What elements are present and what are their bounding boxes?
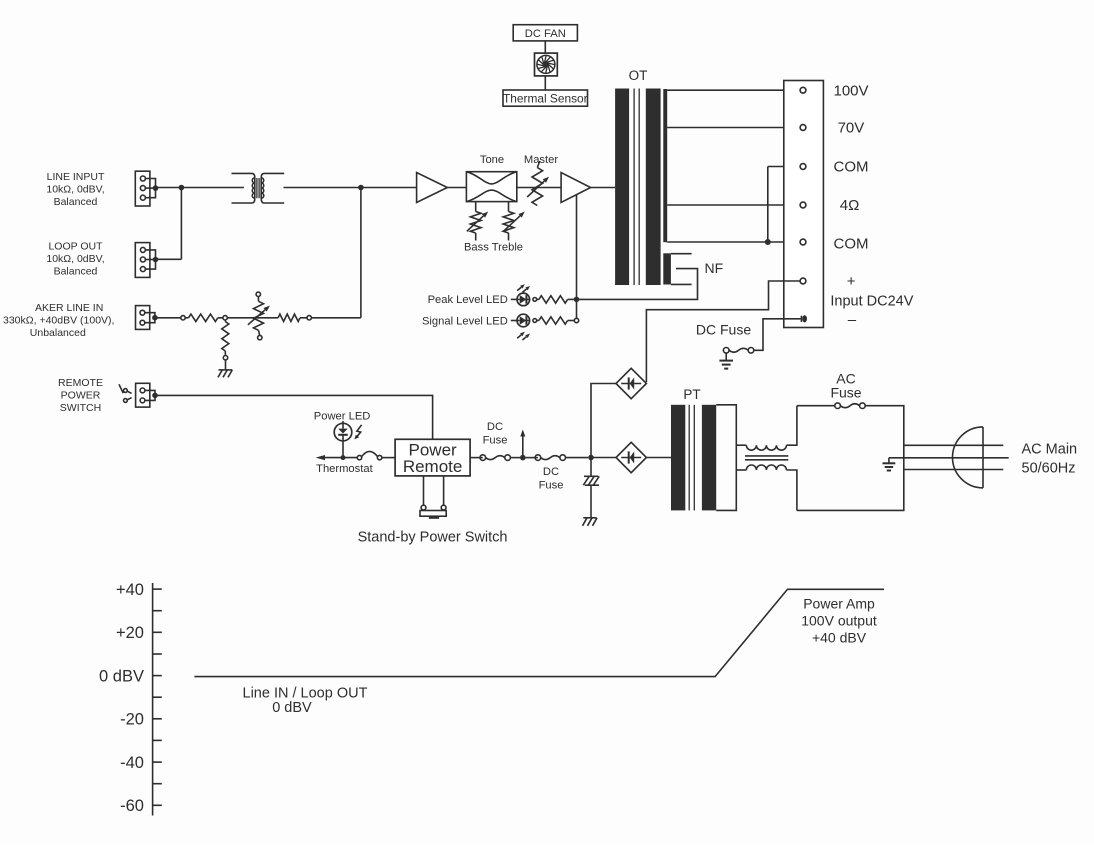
fuse F2 [535, 455, 565, 461]
wire (minus feed) [754, 319, 784, 351]
wire (NF feedback line) [577, 269, 698, 300]
svg-text:DC FAN: DC FAN [525, 28, 566, 40]
inductor L1 (line filter choke) [736, 406, 797, 511]
label REMOTE POWER SWITCH [58, 377, 103, 414]
potentiometer VR3 Treble [503, 202, 525, 241]
svg-text:Master: Master [524, 154, 558, 166]
wire [646, 457, 671, 459]
svg-text:–: – [848, 311, 857, 328]
ground (AC earth) [883, 458, 896, 471]
wire [218, 317, 278, 319]
svg-text:SWITCH: SWITCH [60, 402, 101, 414]
terminal 100V [800, 87, 806, 93]
wire [300, 316, 361, 320]
wire [526, 457, 538, 459]
wire (AC line top) [904, 444, 1004, 446]
label LINE INPUT [46, 171, 105, 208]
svg-text:10kΩ, 0dBV,: 10kΩ, 0dBV, [46, 253, 104, 265]
label Power Amp [801, 595, 877, 645]
wire [591, 457, 616, 459]
wire (COM tap) [667, 241, 800, 243]
resistor R1 [189, 314, 218, 321]
node (signal end) [574, 318, 578, 322]
fuse F3 [480, 455, 510, 461]
svg-text:-40: -40 [120, 754, 144, 772]
svg-text:4Ω: 4Ω [840, 197, 860, 214]
svg-text:AC Main: AC Main [1022, 441, 1078, 457]
svg-text:Bass Treble: Bass Treble [464, 242, 523, 254]
wire [382, 457, 395, 459]
wire [566, 457, 589, 459]
label LOOP OUT [46, 241, 104, 278]
level curve [194, 589, 884, 676]
wire [591, 187, 616, 189]
wire [156, 258, 182, 260]
svg-text:DC: DC [543, 466, 559, 478]
wire (remote to power remote) [155, 395, 433, 439]
svg-text:Fuse: Fuse [830, 384, 861, 400]
terminal COM [800, 239, 806, 245]
op-amp U1 (pre amp) [417, 173, 448, 203]
svg-text:LOOP OUT: LOOP OUT [48, 241, 103, 253]
LED D3 power [334, 421, 352, 458]
svg-text:OT: OT [629, 68, 648, 83]
switch SW1 (remote contacts) [119, 384, 132, 402]
wire (100V tap) [667, 89, 800, 91]
wire (AC line bottom) [904, 469, 1004, 471]
svg-text:Fuse: Fuse [539, 480, 564, 492]
svg-text:POWER: POWER [61, 390, 101, 402]
label DC Fuse 1 [483, 421, 508, 447]
wire (AC loop) [797, 406, 904, 511]
connector J2 LOOP OUT [135, 243, 158, 278]
svg-text:10kΩ, 0dBV,: 10kΩ, 0dBV, [46, 184, 104, 196]
svg-text:Stand-by Power Switch: Stand-by Power Switch [358, 530, 508, 546]
fuse F1 (DC input) [723, 348, 753, 354]
wire (NF winding stubs) [671, 254, 692, 285]
op-amp U2 (power amp) [561, 173, 591, 203]
switch SW2 (thermostat) [357, 451, 382, 459]
DC FAN box [513, 25, 577, 41]
resistor R3 [278, 314, 300, 321]
svg-text:PT: PT [683, 387, 700, 402]
wire (AC earth line) [889, 457, 1009, 459]
node (shunt tap) [223, 316, 227, 320]
svg-text:+: + [847, 273, 856, 290]
potentiometer VR4 Master [524, 154, 558, 206]
potentiometer VR1 (input level) [248, 292, 270, 340]
svg-text:NF: NF [705, 260, 724, 276]
wire (bridge left link) [591, 384, 616, 458]
svg-text:Thermostat: Thermostat [316, 463, 373, 475]
svg-text:Balanced: Balanced [54, 266, 98, 278]
svg-text:50/60Hz: 50/60Hz [1022, 461, 1076, 477]
terminal 4Ω [800, 202, 806, 208]
AC plug [953, 427, 984, 488]
svg-text:Tone: Tone [480, 154, 504, 166]
graph axis [153, 583, 162, 816]
transformer PT [671, 405, 736, 511]
svg-text:0 dBV: 0 dBV [272, 700, 312, 716]
label DC Fuse 2 [539, 466, 564, 492]
svg-text:Peak Level LED: Peak Level LED [428, 294, 508, 306]
resistor R2 (shunt) [222, 320, 229, 370]
wire [590, 485, 592, 518]
light arrows [517, 332, 530, 340]
wire [185, 317, 188, 319]
wire [797, 405, 835, 407]
fuse F4 (AC) [835, 403, 865, 409]
light arrows [517, 284, 530, 292]
wire (amp output sense riser) [576, 195, 578, 319]
wire [544, 76, 546, 90]
svg-text:LINE INPUT: LINE INPUT [47, 171, 105, 183]
svg-text:70V: 70V [838, 120, 865, 137]
wire [470, 457, 483, 459]
svg-text:COM: COM [834, 159, 869, 176]
svg-text:REMOTE: REMOTE [58, 377, 103, 389]
resistor R4 [537, 296, 577, 303]
ground (chassis rake) [583, 518, 598, 526]
wire [284, 187, 417, 189]
wire [155, 317, 181, 319]
node [181, 316, 185, 320]
label AC Fuse [830, 370, 861, 400]
rectifier BR2 (bottom bridge) [616, 442, 646, 472]
wire [447, 187, 466, 189]
transformer T1 (line isolation) [232, 173, 285, 203]
svg-text:Fuse: Fuse [483, 435, 508, 447]
terminal strip [784, 81, 824, 328]
node [341, 455, 346, 460]
LED D2 signal [511, 314, 530, 327]
wire (4ohm tap) [667, 204, 800, 206]
terminal 70V [800, 125, 806, 131]
ground (earth below F1) [719, 353, 733, 369]
wire (70V tap) [667, 127, 800, 129]
label SPEAKER LINE IN (cropped) [3, 302, 114, 339]
svg-text:Unbalanced: Unbalanced [30, 327, 86, 339]
wire [544, 41, 546, 53]
svg-text:DC: DC [487, 421, 503, 433]
node (peak junction) [574, 297, 580, 303]
switch SW3 stand-by [420, 476, 446, 519]
svg-text:Input DC24V: Input DC24V [830, 294, 913, 310]
wire (DC24V plus feed) [646, 281, 800, 382]
svg-text:Thermal Sensor: Thermal Sensor [503, 91, 588, 105]
terminal COM [800, 164, 806, 170]
resistor R5 [537, 317, 575, 324]
connector J1 LINE INPUT [135, 171, 158, 206]
svg-text:+40: +40 [116, 581, 144, 599]
label Line IN / Loop OUT [243, 685, 368, 716]
wire (sense arrow) [520, 430, 525, 458]
connector J4 remote power switch [136, 383, 158, 407]
node (speaker line junction) [358, 185, 364, 191]
ground (signal ground rake) [218, 370, 232, 377]
wire (from speaker line in riser) [360, 188, 362, 318]
svg-text:330kΩ, +40dBV (100V),: 330kΩ, +40dBV (100V), [3, 315, 114, 327]
node (power junction) [588, 455, 594, 461]
node (line input junction) [179, 185, 185, 191]
svg-text:+20: +20 [116, 624, 144, 642]
svg-text:Balanced: Balanced [54, 196, 98, 208]
rectifier BR1 (top bridge) [616, 368, 646, 398]
wire (COM link) [768, 167, 800, 243]
node [533, 319, 537, 323]
wire [517, 187, 561, 189]
fan (DC fan icon) [535, 53, 558, 76]
svg-text:Power Amp: Power Amp [803, 595, 875, 611]
svg-text:AKER LINE IN: AKER LINE IN [35, 302, 103, 314]
power remote box [395, 439, 470, 476]
svg-text:100V output: 100V output [801, 613, 877, 629]
svg-text:0 dBV: 0 dBV [99, 667, 144, 685]
tone block (Tone) [466, 154, 516, 202]
node [533, 298, 537, 302]
svg-text:100V: 100V [834, 82, 869, 99]
thermostat arrow [316, 455, 358, 460]
svg-text:Remote: Remote [403, 457, 463, 476]
svg-text:-20: -20 [120, 711, 144, 729]
terminal minus [784, 315, 807, 322]
wire [156, 187, 244, 189]
node [765, 239, 771, 245]
svg-text:COM: COM [834, 236, 869, 253]
svg-text:Power LED: Power LED [314, 410, 371, 422]
potentiometer VR2 Bass [467, 202, 488, 241]
ground (hatch symbol) [583, 458, 599, 486]
svg-text:DC Fuse: DC Fuse [696, 322, 751, 338]
svg-text:-60: -60 [120, 797, 144, 815]
transformer OT [615, 89, 671, 286]
terminal + [800, 278, 806, 284]
svg-text:Signal Level LED: Signal Level LED [422, 315, 508, 327]
wire (loop out riser) [180, 188, 182, 260]
connector J3 speaker line in [136, 306, 158, 330]
Thermal Sensor box [503, 90, 588, 106]
svg-text:+40 dBV: +40 dBV [812, 629, 867, 645]
lightning bolt [354, 425, 361, 440]
wire [511, 457, 521, 459]
node [520, 455, 526, 461]
LED D1 peak [511, 293, 530, 306]
